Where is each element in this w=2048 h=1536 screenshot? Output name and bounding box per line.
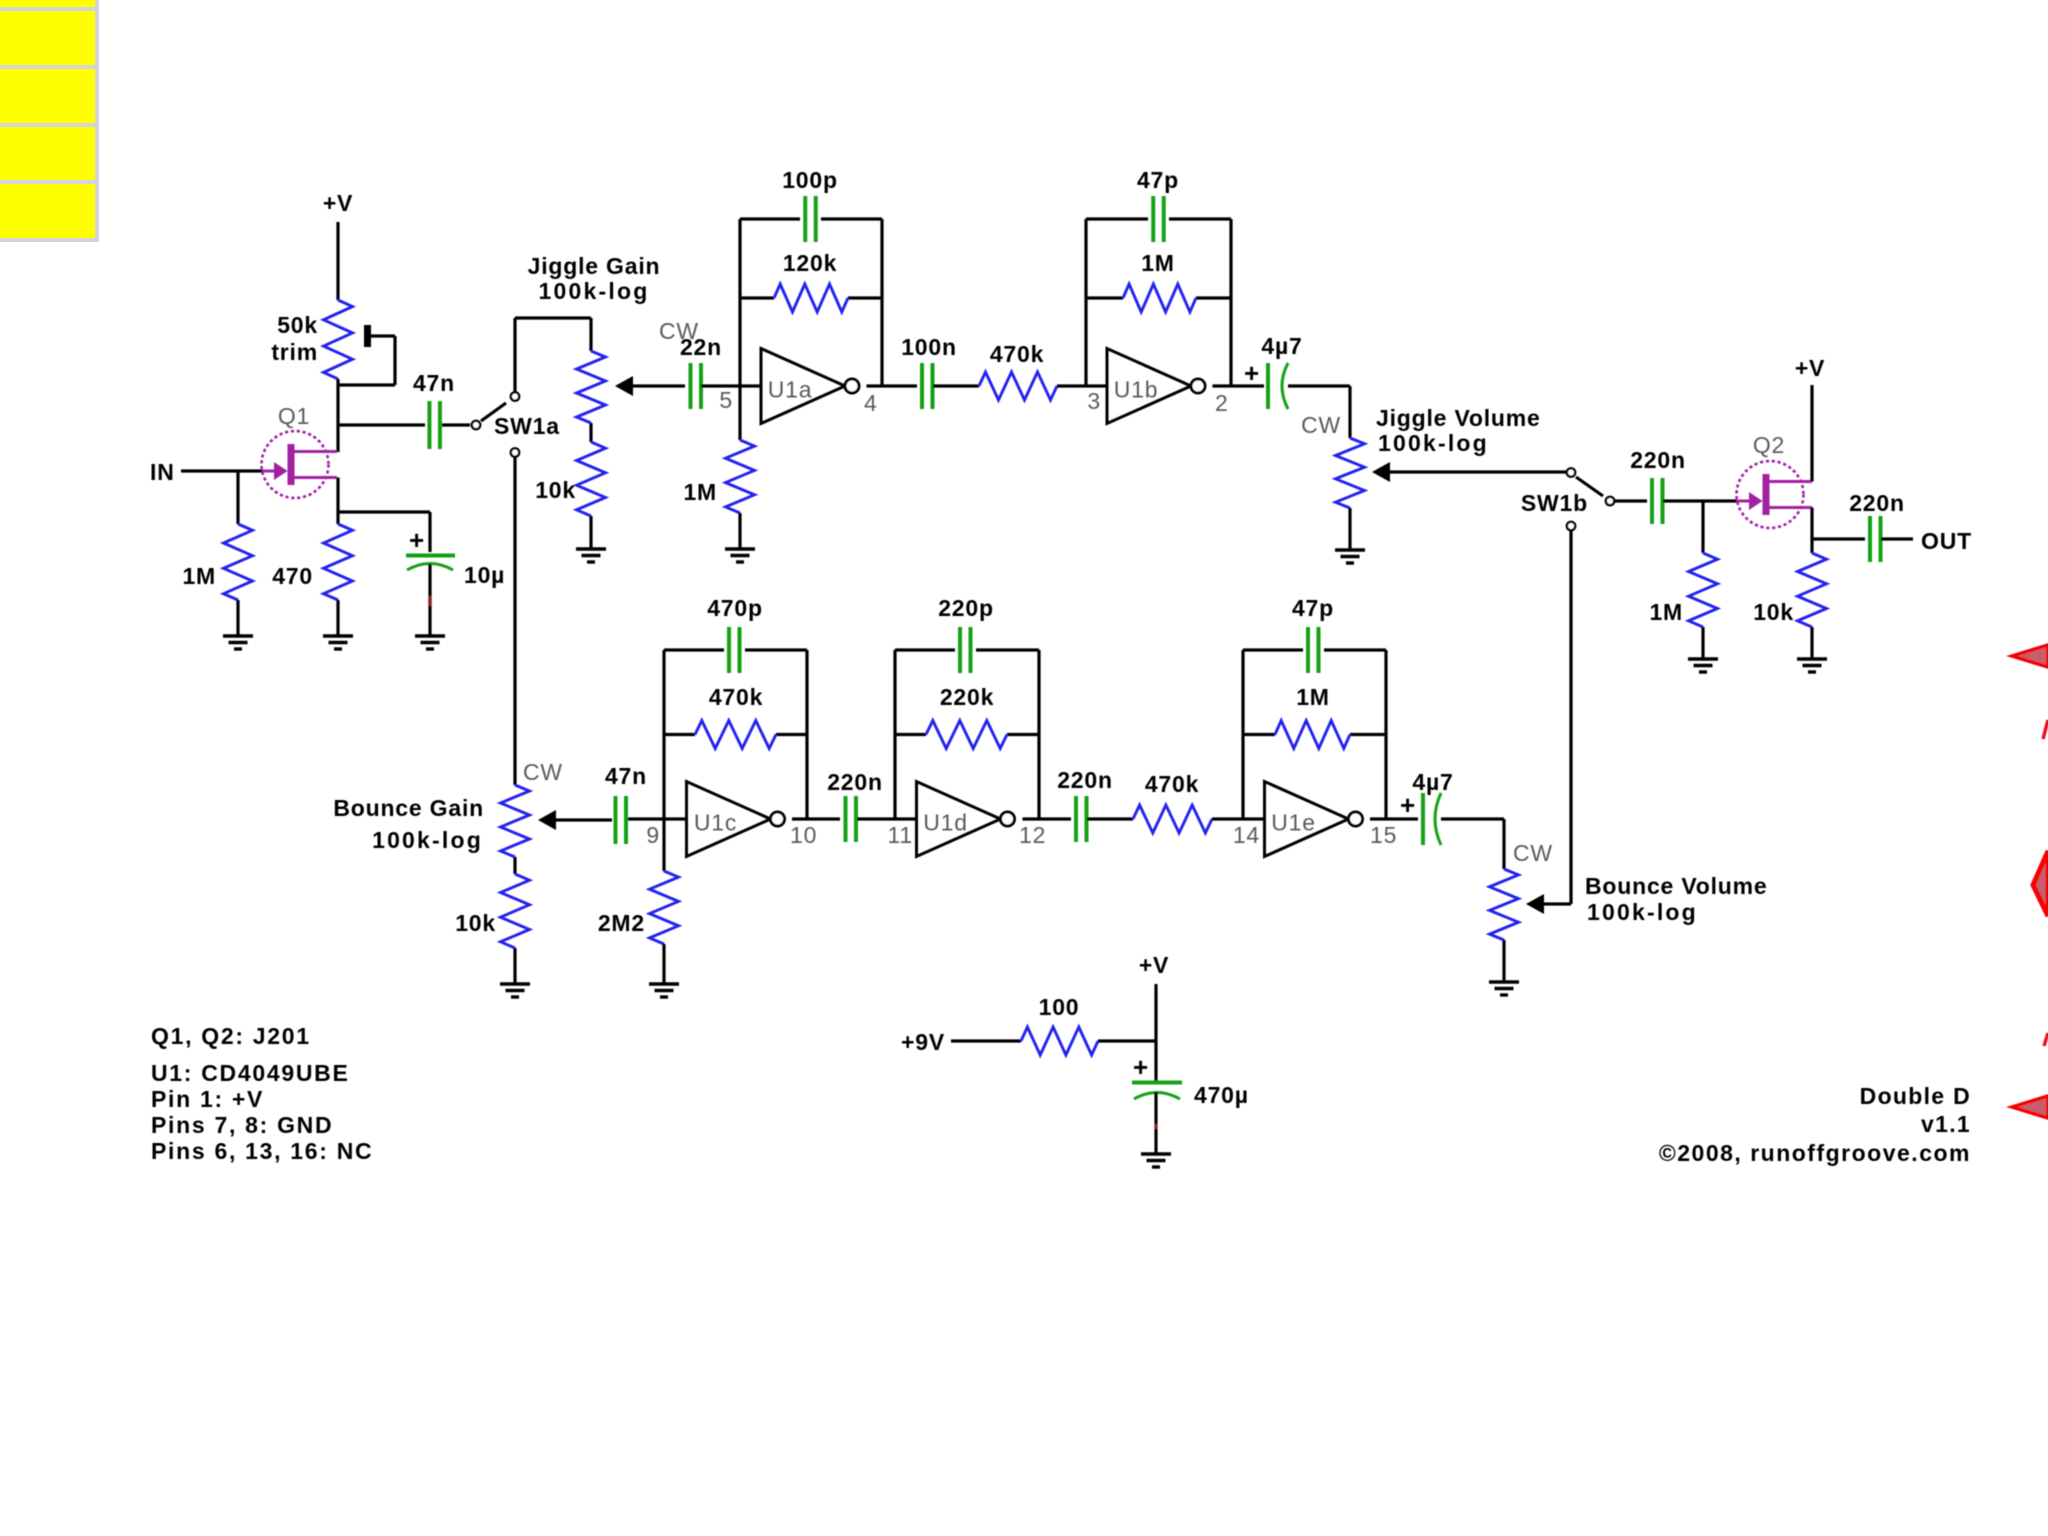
svg-text:+V: +V [323,190,353,216]
resistor 470k (bounce coupling) [1133,771,1212,833]
svg-text:U1e: U1e [1271,810,1316,836]
switch SW1b [1521,468,1614,530]
wire Q1 source down [336,478,339,525]
svg-text:5: 5 [719,387,733,413]
svg-text:SW1b: SW1b [1521,490,1588,516]
wire 22n to pin5 node [701,384,761,387]
wire source node to 220n out [1812,537,1865,540]
wire U1a feedback right vertical [880,219,883,386]
pin 2 label [1215,390,1229,416]
svg-text:4µ7: 4µ7 [1261,333,1302,359]
svg-text:470µ: 470µ [1194,1082,1249,1108]
power +V rail label (Q2) [1795,355,1825,482]
wire U1b out [1213,384,1265,387]
inverter U1d [917,782,1015,857]
capacitor 470u electrolytic [1132,1052,1249,1108]
svg-text:15: 15 [1370,822,1397,848]
svg-text:1M: 1M [1649,599,1683,625]
capacitor 4u7 (jiggle out) [1244,333,1303,409]
wire U1e out [1370,817,1418,820]
resistor 120k (U1a feedback) [740,250,882,312]
resistor 100 [1021,994,1098,1055]
wire 220n to 470k (bounce) [1087,817,1133,820]
ground (input 1M) [223,600,253,649]
svg-text:9: 9 [646,822,660,848]
transistor Q1 [262,403,338,498]
svg-text:10: 10 [790,822,817,848]
wire IN junction to 1M [236,471,239,524]
svg-text:CW: CW [523,759,563,785]
trimmer wiper wire [338,325,395,385]
svg-text:+9V: +9V [901,1029,945,1055]
svg-text:1M: 1M [182,563,216,589]
wire U1c out [792,817,840,820]
wire 47n to pin9 node [628,817,687,820]
inverter U1b [1107,349,1205,424]
ground (Q2 1M) [1688,627,1718,672]
svg-text:47p: 47p [1292,595,1334,621]
note Q1 Q2 J201 [151,1023,311,1049]
svg-text:IN: IN [150,459,175,485]
decor yellow sidebar [0,0,99,242]
capacitor 47p (U1b feedback) [1137,167,1179,242]
wire U1e feedback right vertical [1384,650,1387,819]
resistor 1M (pin5) [683,440,754,513]
node +9V [901,1029,1021,1055]
decor red arrow 1 [2012,645,2048,667]
wire U1a out [867,384,918,387]
svg-text:U1b: U1b [1114,377,1159,403]
resistor 1M (U1e feedback) [1243,684,1386,749]
ground (Jiggle Gain) [576,516,606,562]
switch SW1a [472,392,560,456]
resistor 1M (input) [182,524,252,600]
svg-text:Pin 1: +V: Pin 1: +V [151,1086,264,1112]
svg-text:Q1: Q1 [278,403,310,429]
power +V rail label (supply) [1139,952,1169,1081]
svg-text:47n: 47n [413,370,455,396]
wire U1b feedback top rail [1086,217,1231,220]
wire 4u7 to Jiggle Volume [1288,386,1350,438]
wire SW1b pole to 220n [1615,499,1647,502]
pin 5 label [719,387,733,413]
wire 470k to U1b [1057,384,1107,387]
svg-text:Jiggle Volume: Jiggle Volume [1376,405,1541,431]
svg-text:CW: CW [1301,412,1341,438]
note U1 CD4049UBE [151,1060,350,1086]
decor red fragment 2 [2043,720,2048,739]
svg-text:+: + [1244,358,1260,388]
pin 15 label [1370,822,1397,848]
resistor 470 (source) [272,524,352,600]
svg-text:10µ: 10µ [464,562,505,588]
transistor Q2 [1737,432,1813,528]
decor red arrow 3 [2033,851,2048,916]
wire U1c feedback right vertical [805,650,808,819]
svg-text:220n: 220n [1849,490,1905,516]
capacitor 220n (output) [1849,490,1905,562]
svg-text:100k-log: 100k-log [372,827,483,853]
svg-text:Bounce Volume: Bounce Volume [1585,873,1768,899]
pin 9 label [646,822,660,848]
svg-text:10k: 10k [455,910,496,936]
wire U1e feedback left vertical [1241,650,1244,819]
svg-text:220n: 220n [1630,447,1686,473]
svg-text:470k: 470k [990,341,1044,367]
potentiometer Jiggle Gain 100k-log [528,253,699,423]
wire 220n to Q2 gate [1663,499,1737,502]
svg-text:10k: 10k [535,477,576,503]
svg-text:Q1, Q2: J201: Q1, Q2: J201 [151,1023,311,1049]
svg-text:100p: 100p [782,167,838,193]
ground (Q2 10k) [1797,627,1827,672]
decor red arrow 5 [2012,1096,2048,1118]
svg-text:220k: 220k [940,684,994,710]
wire Q2 source down [1810,508,1813,554]
svg-text:U1c: U1c [694,810,737,836]
capacitor 4u7 (bounce out) [1400,769,1454,845]
svg-text:100n: 100n [901,334,957,360]
wire drain node to 47n [338,423,425,426]
svg-text:+V: +V [1795,355,1825,381]
node IN [150,459,262,485]
resistor 10k (Bounce Gain) [455,857,529,948]
wire 10u to ground with red artifact [428,564,431,636]
wire U1d out [1023,817,1072,820]
wire trim to Q1 drain [336,379,339,452]
wire pin9 node down to 2M2 [662,819,665,871]
wire 220n to U1d [857,817,917,820]
resistor 220k (U1d feedback) [895,684,1039,749]
svg-text:v1.1: v1.1 [1921,1111,1971,1137]
capacitor 100n [901,334,957,409]
title copyright [1659,1140,1971,1166]
wire 47n to SW1a [442,423,470,426]
note Pins 6 13 16 NC [151,1138,373,1164]
ground (Jiggle Volume) [1335,508,1365,563]
wire U1d feedback left vertical [893,650,896,819]
resistor 470k (coupling) [979,341,1057,400]
resistor 10k (Jiggle Gain) [535,423,605,516]
wire SW1a throw1 to Jiggle Gain top [515,318,591,392]
svg-text:14: 14 [1233,822,1260,848]
svg-text:470k: 470k [1145,771,1199,797]
ground (Bounce Volume) [1489,940,1519,995]
svg-text:470k: 470k [709,684,763,710]
wire 470u to ground with red artifact [1154,1092,1157,1154]
ground (Bounce Gain) [500,948,530,997]
wire 470k to U1e [1212,817,1265,820]
svg-text:+V: +V [1139,952,1169,978]
capacitor 22n [680,334,722,409]
note Pin1 +V [151,1086,264,1112]
wire U1a feedback top rail [740,217,882,220]
inverter U1a [761,349,859,424]
title Double D [1860,1083,1971,1109]
note Pins 7 8 GND [151,1112,333,1138]
potentiometer Bounce Volume 100k-log [1490,840,1768,940]
svg-text:47p: 47p [1137,167,1179,193]
svg-text:Pins 7, 8: GND: Pins 7, 8: GND [151,1112,333,1138]
svg-text:1M: 1M [683,479,717,505]
svg-text:10k: 10k [1753,599,1794,625]
wire 4u7 to Bounce Volume [1441,819,1504,869]
svg-text:U1d: U1d [923,810,968,836]
inverter U1c [687,782,785,857]
svg-text:220p: 220p [938,595,994,621]
capacitor 47n (bounce) [605,763,647,844]
wire gate node to 1M [1701,501,1704,553]
svg-text:2: 2 [1215,390,1229,416]
svg-text:11: 11 [888,822,913,848]
svg-text:Bounce Gain: Bounce Gain [333,795,484,821]
svg-text:2M2: 2M2 [598,910,645,936]
pin 3 label [1087,388,1101,414]
ground (2M2) [649,944,679,997]
capacitor 220n (Q2 in) [1630,447,1686,524]
svg-text:©2008, runoffgroove.com: ©2008, runoffgroove.com [1659,1140,1971,1166]
wire U1b feedback left vertical [1084,219,1087,386]
wire 100n to 470k [933,384,979,387]
svg-text:100k-log: 100k-log [1587,899,1698,925]
svg-text:1M: 1M [1296,684,1330,710]
resistor 2M2 [598,871,679,944]
svg-text:OUT: OUT [1921,528,1972,554]
svg-text:trim: trim [271,339,318,365]
wire SW1a throw2 to Bounce Gain [513,457,516,785]
pin 11 label [888,822,913,848]
ground (470) [323,600,353,649]
svg-text:U1a: U1a [768,377,813,403]
wire pin9 node up (U1c feedback left) [662,650,665,819]
power +V rail label (input) [323,190,353,300]
svg-text:Pins 6, 13, 16: NC: Pins 6, 13, 16: NC [151,1138,373,1164]
svg-text:220n: 220n [827,769,883,795]
wire U1d feedback right vertical [1037,650,1040,819]
title v1.1 [1921,1111,1971,1137]
svg-text:4: 4 [864,390,878,416]
wire 100 to +V node [1098,1039,1156,1042]
wire pin5 node up (U1a feedback left) [738,219,741,386]
pin 4 label [864,390,878,416]
capacitor 220n (c-d) [827,769,883,842]
ground (10u) [415,636,445,649]
svg-text:220n: 220n [1057,767,1113,793]
svg-text:120k: 120k [783,250,837,276]
ground (pin5 1M) [725,513,755,562]
svg-text:1M: 1M [1141,250,1175,276]
svg-text:4µ7: 4µ7 [1412,769,1453,795]
wire pin5 node down to 1M [738,386,741,440]
wire source to 10u [338,512,430,552]
capacitor 10u electrolytic [406,525,505,588]
capacitor 470p (U1c feedback) [707,595,763,673]
pin 10 label [790,822,817,848]
resistor 1M (Q2 gate) [1649,553,1717,627]
pin 14 label [1233,822,1260,848]
wire U1b feedback right vertical [1229,219,1232,386]
resistor 10k (Q2 source) [1753,553,1826,627]
resistor 1M (U1b feedback) [1086,250,1231,312]
pin 12 label [1019,822,1046,848]
capacitor 47p (U1e feedback) [1292,595,1334,673]
svg-text:50k: 50k [277,312,318,338]
svg-text:100k-log: 100k-log [539,278,650,304]
wire U1d feedback top rail [895,648,1039,651]
svg-text:Q2: Q2 [1753,432,1785,458]
svg-text:12: 12 [1019,822,1046,848]
wire U1c feedback top rail [664,648,807,651]
capacitor 220n (d-e) [1057,767,1113,842]
wire SW1b throw2 to Bounce Volume wiper [1569,530,1572,904]
capacitor 220p (U1d feedback) [938,595,994,673]
inverter U1e [1265,782,1363,857]
svg-text:470: 470 [272,563,313,589]
resistor 470k (U1c feedback) [664,684,807,749]
svg-text:Double D: Double D [1860,1083,1971,1109]
capacitor 47n (input) [413,370,455,449]
svg-text:SW1a: SW1a [494,413,560,439]
svg-text:100k-log: 100k-log [1378,430,1489,456]
svg-text:U1: CD4049UBE: U1: CD4049UBE [151,1060,350,1086]
potentiometer Jiggle Volume 100k-log [1301,405,1566,508]
capacitor 100p (U1a feedback) [782,167,838,242]
node OUT [1881,528,1972,554]
svg-text:+: + [409,525,425,555]
svg-text:100: 100 [1039,994,1080,1020]
svg-text:47n: 47n [605,763,647,789]
svg-text:CW: CW [1513,840,1553,866]
trimmer 50k trim [271,300,352,379]
ground (470u) [1141,1154,1171,1167]
svg-text:Jiggle Gain: Jiggle Gain [528,253,661,279]
decor red fragment 4 [2044,1033,2048,1046]
potentiometer Bounce Gain 100k-log [333,759,612,857]
svg-text:22n: 22n [680,334,722,360]
svg-text:3: 3 [1087,388,1101,414]
svg-text:+: + [1133,1052,1149,1082]
svg-text:470p: 470p [707,595,763,621]
wire U1e feedback top rail [1243,648,1386,651]
